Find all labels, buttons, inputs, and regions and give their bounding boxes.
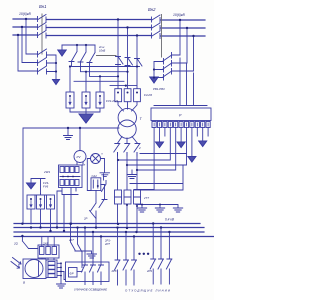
svg-text:FV6: FV6 [43,185,49,189]
wire lamp circuit down [95,211,97,228]
terminal drop 4 arrow stem [180,128,182,143]
control contacts above cabinet [71,224,83,268]
CT secondary ground wire [136,204,178,208]
breaker Bн2 contacts [152,15,161,39]
svg-text:0,4 кВ: 0,4 кВ [165,218,175,222]
svg-text:2Р: 2Р [83,217,88,221]
HV bus line C right segment [161,35,205,37]
crossover wire 2 [81,62,128,72]
HV bus line A middle segment [47,19,152,21]
fuse F5 [124,89,131,102]
LV feeder A [117,153,119,224]
middle tap phase A [117,20,119,89]
svg-text:ФР: ФР [70,272,74,276]
bus junction dots [17,18,195,277]
HV bus line A right segment [161,19,205,21]
arrow under drop 4 [177,142,185,148]
aux ground stem [61,45,63,50]
meter drop wires to bus [57,191,64,232]
socket inner [93,180,98,188]
svg-text:10(6)кВ: 10(6)кВ [173,13,186,17]
svg-text:10кВ: 10кВ [99,49,105,53]
terminal drop 8 to tap3 [137,128,176,171]
middle tap phase C [136,36,138,89]
crossover wire 1 [72,62,138,67]
neutral ground symbol [64,136,73,140]
svg-text:Вн1: Вн1 [39,4,46,9]
LV bus line 1 [14,223,200,225]
surge arrester LV feeds [31,194,51,233]
terminal strip of box P [152,122,210,128]
svg-text:7: 7 [84,163,86,167]
surge arrester FV3 [96,92,104,108]
svg-text:2: 2 [138,146,141,150]
energy meter 2W1 body [59,165,83,188]
meter terminal row bottom [60,180,79,186]
FR wire to contactor [77,271,82,273]
meter leads [77,163,83,166]
outgoing line group 1 [115,228,137,285]
wire drop left phase C [18,35,38,71]
fuse to transformer funnel [118,102,137,111]
socket box CA2 [91,178,101,191]
terminal drop 5 to tap2 [128,128,187,166]
ground stem under tap lines [131,170,133,174]
HV bus line B left segment [13,26,37,28]
terminal drop 7 arrow stem [202,128,204,142]
breaker Bн2 linkage [161,15,163,58]
ground above cabinet [75,251,97,258]
svg-text:2Q: 2Q [13,242,19,246]
right grounding switch contacts [163,53,172,81]
arrow under drop 6 [188,157,196,163]
HV bus line C left segment [13,34,37,36]
LV bus line 4 [14,236,214,238]
lighting contactor blades [82,262,104,282]
wire nested loop [130,165,183,190]
svg-text:к: к [102,152,104,156]
current transformer B [124,190,131,204]
neutral wire from transformer [23,128,119,224]
ellipsis dots [138,253,149,255]
terminal drop 2 arrow stem [159,128,161,143]
socket inner dot [97,185,99,187]
svg-text:F4-F6: F4-F6 [144,93,152,97]
outgoing line group 2 [150,224,172,285]
2AT feed drops [42,237,54,247]
photo relay unit FR [69,268,78,278]
left ground collector wire [47,55,57,80]
meter bottom leads [62,188,78,225]
lamp left wire [87,159,91,191]
current transformer A [115,190,122,204]
LV arrester inner arrows [30,201,52,208]
wire drop right phase B [172,28,187,63]
terminal drop 1 long [153,128,155,190]
svg-text:2W1: 2W1 [43,170,51,174]
switch 2P contact [91,191,97,212]
svg-text:Вн2: Вн2 [148,7,156,12]
aux ground arrow [58,50,66,56]
svg-text:2Р7: 2Р7 [104,242,110,246]
fuse F4 [115,89,122,102]
wire return y153 [140,153,187,155]
LV feeder C [136,153,138,233]
terminal drop 3 to tap1 [118,128,170,161]
street lighting cabinet [66,262,110,282]
svg-text:2ТТ: 2ТТ [143,196,149,200]
switch 2Q blade [22,237,38,249]
terminal inner marks [154,123,208,126]
meter terminal row top [60,167,79,173]
HV bus line B right segment [161,27,205,29]
svg-text:FV1-FV3: FV1-FV3 [106,99,118,103]
svg-text:В: В [23,281,25,285]
breaker Bн1 linkage [41,14,43,54]
meter internal wire [60,176,80,178]
ground symbol under taps [127,175,137,179]
lamp circuit to switch [101,185,105,200]
svg-text:2К7: 2К7 [68,238,74,242]
voltmeter PV [74,151,86,163]
neutral ground stem [67,128,69,135]
left grounding switch contacts [38,49,47,74]
voltmeter PV tap [79,128,81,151]
HV bus line B middle segment [47,27,152,29]
surge arrester FV1 [66,92,74,108]
middle tap phase B [127,28,129,89]
ground under terminal box [57,276,66,288]
arrow under drop 2 [156,142,164,148]
LV bus line 3 [14,231,204,233]
arrester feed 2 [85,72,87,92]
fuse F6 [134,89,141,102]
LV breaker contacts [114,144,140,157]
LV arrester top bus [31,179,51,196]
feeder collector line to relay box [154,105,207,107]
svg-text:УЛИЧНОЕ ОСВЕЩЕНИЕ: УЛИЧНОЕ ОСВЕЩЕНИЕ [74,288,107,292]
street lighting outgoing wires [85,282,101,285]
feeds to lighting cabinet [85,228,101,262]
ground symbol g3 [173,208,182,212]
arrester group ground arrow [79,114,93,123]
transformer secondary winding [118,120,136,138]
transformer primary winding [118,108,136,126]
lamp right wire [101,159,105,173]
crossover wire 4 [74,80,124,82]
2AT terminals [40,247,57,255]
disconnector linkage bar [97,55,117,57]
surge arrester FV2 [82,92,90,108]
HV bus line A left segment [13,18,37,20]
photo relay box [23,259,46,279]
wire drop left phase B [22,27,38,63]
arrester feed 3 [99,76,101,92]
terminal drop 6 arrow stem [191,128,193,157]
HV bus line C middle segment [47,35,152,37]
LV bus line 2 [14,227,204,229]
breaker Bн1 contacts [38,15,47,39]
ground symbol g2 [155,208,164,212]
terminal drop stubs [165,128,208,137]
arrester FV6 [47,195,55,209]
wires 2AT to photo relay [42,258,74,280]
right feeder drops to relay box [180,58,194,105]
photo relay lens circle [25,260,43,278]
arrester switch contacts [69,45,95,63]
photo relay light arrows [11,258,21,269]
arrester feed 1 [69,67,71,93]
photo relay wires right [57,263,64,275]
auxiliary tap line y45 [62,44,95,46]
right ground arrow [150,77,158,83]
arrester FV4 [27,195,35,209]
wire drop right phase C [172,36,194,71]
left ground arrow [53,80,60,85]
wire drop left phase A [26,19,38,54]
svg-text:ОТХОДЯЩИЕ ЛИНИИ: ОТХОДЯЩИЕ ЛИНИИ [125,289,171,293]
ground symbol g1 [137,208,146,212]
crossover wire 3 [90,63,119,77]
svg-text:РВ1-РВ3: РВ1-РВ3 [153,87,165,91]
svg-text:Т: Т [140,117,143,121]
current transformer C [134,190,141,204]
arrester inner arrows [69,98,101,105]
terminal box of photo relay [46,260,57,278]
svg-text:2Р8: 2Р8 [111,269,117,273]
lens inner [38,261,40,277]
aux contact left of CTs [102,174,107,192]
arrow under drop 7 [199,141,207,147]
photo relay terminals [48,262,55,278]
CT dividers [115,196,141,198]
right ground collector wire [154,62,164,79]
switch blade lower [99,199,107,208]
middle disconnector contacts [116,57,143,67]
svg-text:10(6)кВ: 10(6)кВ [19,12,32,16]
transformer LV leads [118,137,138,144]
relay protection box P [151,108,211,121]
transformer box 2AT [38,245,59,258]
LV feeder B [126,153,128,228]
tap junction dots [117,159,138,171]
arrester FV5 [37,195,45,209]
wire drop right phase A [172,20,180,55]
lamp ground symbol [100,173,110,177]
lamp cross [92,155,99,162]
LV arrester ground arrow [27,183,36,189]
switch 2P second blade [90,211,97,219]
svg-text:СА2: СА2 [92,174,98,178]
svg-text:2Р9: 2Р9 [146,269,152,273]
crossover wire 5 [110,85,137,87]
signal lamp HL [91,154,101,164]
arrester ground bus [70,108,100,114]
